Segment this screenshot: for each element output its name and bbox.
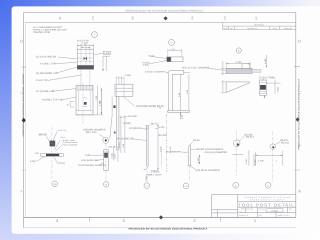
pin body [104, 150, 109, 170]
svg-text:.22 Ø x1 THRU: .22 Ø x1 THRU [258, 76, 275, 79]
svg-text:APPROVED: APPROVED [284, 28, 293, 30]
svg-text:1.63: 1.63 [178, 93, 181, 97]
svg-text:±.005: ±.005 [104, 52, 110, 55]
shaft key step [242, 64, 250, 70]
svg-text:0.040: 0.040 [125, 74, 131, 77]
svg-text:7: 7 [94, 34, 95, 37]
svg-text:ALL COMPONENTS EXCEPT: ALL COMPONENTS EXCEPT [33, 26, 62, 29]
svg-text:TREATED STEEL: TREATED STEEL [33, 31, 50, 34]
centerline [236, 131, 238, 175]
svg-text:10: 10 [54, 183, 56, 186]
dimension extension lines above view 7 [76, 44, 78, 49]
svg-text:0.250: 0.250 [30, 160, 36, 163]
inner border bottom line [24, 216, 296, 218]
svg-text:D: D [298, 39, 301, 43]
bit body [188, 145, 190, 149]
outer trim bottom faint line [24, 227, 296, 229]
stem [115, 96, 117, 150]
svg-text:R0.09: R0.09 [193, 139, 199, 142]
svg-text:COUNTERSINK CHAMFER: COUNTERSINK CHAMFER [78, 164, 106, 167]
shaft body [226, 68, 252, 73]
svg-text:(2) COUNTERSINK: (2) COUNTERSINK [63, 142, 78, 144]
svg-text:R0.250: R0.250 [159, 134, 167, 137]
dim line right [157, 124, 159, 170]
svg-text:R=(.5) TYP: R=(.5) TYP [77, 39, 89, 42]
svg-text:0.317: 0.317 [245, 159, 248, 164]
threaded end [252, 69, 261, 72]
svg-text:1.50X45°: 1.50X45° [151, 171, 160, 174]
svg-text:DESCRIPTION: DESCRIPTION [247, 28, 257, 30]
svg-text:SHEET 1 OF 1: SHEET 1 OF 1 [278, 214, 290, 216]
dim lines right of stem [120, 116, 122, 153]
head block [115, 84, 133, 96]
top zone ticks [92, 16, 94, 20]
svg-text:Ø CHAMFER: Ø CHAMFER [166, 150, 180, 153]
svg-text:REV: REV [230, 28, 233, 30]
hatched base band [77, 66, 93, 70]
svg-text:PRODUCED BY AN AUTODESK EDUCAT: PRODUCED BY AN AUTODESK EDUCATIONAL PROD… [22, 73, 25, 136]
svg-text:SIZE: SIZE [241, 208, 244, 210]
svg-text:3: 3 [185, 185, 186, 188]
svg-text:2: 2 [191, 16, 193, 21]
bottom arrow [111, 153, 113, 159]
dim line with rotated text 1.688 [265, 55, 267, 68]
balloon 1 [169, 40, 175, 46]
svg-text:COUNTER BORE Ø0.25: COUNTER BORE Ø0.25 [136, 105, 164, 108]
right dim lines [248, 150, 250, 166]
dims [266, 82, 280, 84]
dimension line row [77, 45, 93, 47]
svg-text:(0.500): (0.500) [123, 122, 131, 125]
svg-text:D: D [20, 39, 23, 43]
svg-text:DATE: DATE [273, 28, 277, 30]
dim 1.125 [199, 155, 201, 164]
bottom zone ticks [89, 217, 91, 221]
svg-text:A: A [20, 189, 23, 193]
svg-text:4.00: 4.00 [122, 144, 125, 148]
svg-text:1.040: 1.040 [118, 143, 121, 148]
svg-text:2.000: 2.000 [160, 146, 163, 152]
svg-text:10. (4) DRILL OR: 10. (4) DRILL OR [36, 90, 55, 93]
left dim bracket [69, 102, 71, 108]
svg-text:0.63: 0.63 [180, 115, 183, 119]
extension lines above [116, 76, 118, 84]
left leader labels [36, 56, 58, 82]
centerline [82, 83, 84, 124]
svg-text:REV: REV [289, 208, 292, 210]
dim line 1.700 [226, 63, 250, 65]
horizontal dim line [255, 154, 282, 156]
svg-text:±.375: ±.375 [159, 126, 165, 129]
dims right [113, 148, 115, 161]
svg-text:4: 4 [235, 184, 237, 187]
svg-text:R0.02 TYP: R0.02 TYP [58, 130, 66, 132]
svg-text:1: 1 [255, 16, 257, 21]
washer [103, 138, 109, 144]
block outline [76, 86, 93, 115]
wedge [226, 82, 250, 93]
svg-text:TYP(2): TYP(2) [58, 162, 65, 165]
svg-text:1.040: 1.040 [113, 154, 116, 159]
left border zone ticks [22, 66, 27, 68]
dim bracket right of view 7 [102, 56, 104, 71]
balloon 5 [265, 183, 271, 189]
svg-text:1.625: 1.625 [277, 87, 280, 92]
balloon 10 [52, 181, 58, 187]
svg-text:#4 DRILL TYP 0.25: #4 DRILL TYP 0.25 [42, 99, 63, 102]
svg-text:2: 2 [193, 218, 195, 223]
svg-text:SCALE 1:2: SCALE 1:2 [239, 214, 248, 216]
svg-text:0.50X45° CHAMFER: 0.50X45° CHAMFER [145, 71, 164, 73]
centerline [188, 165, 190, 180]
tolerance box right [104, 51, 111, 54]
svg-text:4: 4 [56, 218, 58, 223]
Gamma-shaped outline [168, 70, 184, 74]
balloon 3 [183, 183, 189, 189]
svg-text:Ø0.313: Ø0.313 [246, 136, 254, 139]
bar with brazed tip [41, 153, 64, 155]
left dim bracket [222, 61, 224, 76]
balloon 2 [144, 183, 150, 189]
svg-text:(2X) 45°: (2X) 45° [108, 146, 116, 149]
balloon 7 [92, 32, 98, 38]
svg-text:PRODUCED BY AN AUTODESK EDUCAT: PRODUCED BY AN AUTODESK EDUCATIONAL PROD… [298, 79, 301, 150]
small inner detail [84, 102, 87, 105]
svg-text:(1/32)(1/64) DIAMETER: (1/32)(1/64) DIAMETER [205, 151, 228, 154]
svg-text:PRODUCED BY AN AUTODESK EDUCAT: PRODUCED BY AN AUTODESK EDUCATIONAL PROD… [125, 9, 203, 12]
svg-text:#32 DRILL THRU: #32 DRILL THRU [62, 140, 75, 142]
centerline between view2 and view3 [151, 114, 172, 172]
svg-text:A: A [298, 189, 301, 193]
svg-text:#7 DRILL TYP: #7 DRILL TYP [40, 63, 55, 66]
top center diamond [164, 16, 168, 20]
svg-text:THRU: THRU [85, 154, 91, 157]
bushing body [167, 57, 183, 62]
svg-text:R(0.04) CHAMFER: R(0.04) CHAMFER [63, 144, 78, 146]
svg-text:Ø.25: Ø.25 [84, 42, 88, 44]
balloon 9 [104, 182, 109, 187]
svg-text:9: 9 [106, 183, 107, 186]
svg-text:REVISIONS: REVISIONS [254, 24, 264, 26]
svg-text:(2X) R0.04 CHAMFER: (2X) R0.04 CHAMFER [196, 169, 220, 172]
left border center diamond [22, 118, 26, 123]
svg-text:1.00: 1.00 [35, 152, 39, 155]
below-base dim [180, 112, 182, 119]
dim line 1.125 [168, 50, 182, 52]
svg-text:2.125: 2.125 [99, 101, 102, 106]
screw body [145, 125, 148, 127]
outer trim left line [23, 13, 25, 228]
svg-text:(2X) Ø0.125: (2X) Ø0.125 [129, 127, 142, 130]
circle [270, 144, 275, 149]
top hatch band [78, 86, 93, 91]
bottom line extending right [76, 114, 103, 116]
svg-text:BRAZE: BRAZE [39, 134, 47, 137]
svg-text:DEBURR CHAMFER: DEBURR CHAMFER [83, 129, 105, 132]
centerline to balloon [105, 143, 107, 181]
svg-text:1.000: 1.000 [145, 176, 148, 181]
cross tick [232, 154, 243, 156]
svg-text:4.750: 4.750 [258, 160, 264, 163]
svg-text:1.00: 1.00 [95, 96, 98, 100]
clamp body [77, 49, 93, 65]
svg-text:TP-0312: TP-0312 [271, 210, 278, 212]
svg-text:R 0.500: R 0.500 [128, 115, 136, 118]
svg-text:5: 5 [268, 184, 269, 187]
inner border left faint line [24, 22, 26, 217]
legs below [80, 69, 82, 85]
svg-text:WT: WT [259, 214, 262, 216]
circle [233, 140, 240, 147]
svg-text:2: 2 [146, 185, 147, 188]
svg-text:SILVER SOLDER BRAZE: SILVER SOLDER BRAZE [196, 148, 223, 151]
left leader labels [36, 90, 63, 101]
svg-text:(2X) .22 X 45° CHAMFER: (2X) .22 X 45° CHAMFER [182, 67, 209, 70]
outer trim right line [295, 13, 297, 218]
svg-text:-0.005: -0.005 [142, 64, 148, 67]
pin part [260, 80, 267, 95]
svg-text:Ø0.313: Ø0.313 [281, 141, 289, 144]
tool tip block [50, 141, 55, 146]
inner border top line [25, 21, 295, 23]
bottom center diamond [159, 215, 163, 219]
right border zone ticks [294, 65, 300, 67]
svg-text:PARTS 1, 3 AND 8 ARE 1018 CRS: PARTS 1, 3 AND 8 ARE 1018 CRS [33, 29, 66, 32]
right border center diamond [296, 117, 300, 122]
svg-text:(2) 1/4-20 UNC-2B: (2) 1/4-20 UNC-2B [36, 56, 56, 59]
svg-text:R1 CRS BORE TYP: R1 CRS BORE TYP [36, 72, 58, 75]
svg-text:3: 3 [122, 218, 124, 223]
right dim lines [97, 86, 99, 115]
svg-text:1: 1 [254, 218, 256, 223]
svg-text:P ALE TYP: P ALE TYP [36, 79, 48, 82]
svg-text:1.700: 1.700 [236, 61, 242, 64]
centerline [51, 127, 53, 178]
centerline [271, 132, 273, 182]
svg-text:6: 6 [238, 49, 239, 52]
dark slot on dovetail stem [113, 105, 115, 108]
svg-text:1.125: 1.125 [171, 48, 176, 50]
svg-text:#4-40 UNC-2B: #4-40 UNC-2B [117, 138, 134, 141]
svg-text:Ø0.177: Ø0.177 [151, 123, 159, 126]
svg-text:0.50Ø X .05 DP: 0.50Ø X .05 DP [146, 174, 162, 177]
svg-text:TOOL POST DETAIL: TOOL POST DETAIL [238, 203, 294, 208]
svg-text:MILL TOP: MILL TOP [86, 131, 97, 134]
svg-text:ZONE: ZONE [223, 28, 227, 30]
outer trim top line [24, 12, 297, 14]
svg-text:4.00: 4.00 [186, 90, 189, 94]
svg-text:1.125: 1.125 [197, 158, 200, 163]
svg-text:1: 1 [276, 160, 277, 163]
dim lines right [180, 75, 182, 111]
svg-text:R0.02: R0.02 [61, 137, 66, 139]
balloon 4 [233, 183, 239, 189]
balloon 6 [236, 48, 241, 53]
svg-text:A: A [241, 211, 243, 213]
svg-text:.5: .5 [67, 104, 69, 107]
svg-text:4: 4 [59, 16, 61, 21]
dim line left of dovetail stem [99, 88, 116, 114]
svg-text:1: 1 [171, 41, 172, 44]
svg-text:DWG NO.: DWG NO. [259, 208, 266, 210]
svg-text:PRODUCED BY AN AUTODESK EDUCAT: PRODUCED BY AN AUTODESK EDUCATIONAL PROD… [129, 227, 208, 230]
svg-text:1.688: 1.688 [264, 59, 267, 64]
svg-text:3: 3 [131, 16, 133, 21]
base plate [167, 110, 189, 112]
svg-text:FSCM NO.: FSCM NO. [246, 208, 253, 210]
